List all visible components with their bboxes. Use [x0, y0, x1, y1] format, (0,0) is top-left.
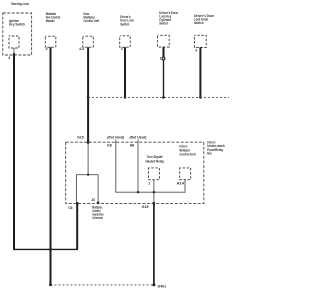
driver's door lock knob switch terminal square: [194, 35, 206, 47]
wire relay pinA14 down to bus: [184, 180, 186, 193]
svg-text:Hazard Relay: Hazard Relay: [146, 159, 165, 164]
terminal tick G15 entry: [87, 141, 89, 144]
radiator fan control module terminal square: [45, 36, 56, 47]
svg-text:Box: Box: [207, 151, 212, 156]
junction dot bottom bus: [49, 248, 52, 251]
svg-text:(Not Used): (Not Used): [107, 135, 125, 139]
wire knob switch down to door boundary: [199, 47, 201, 97]
svg-text:C6: C6: [68, 206, 72, 210]
svg-text:4: 4: [46, 47, 48, 51]
label Multiplex Control Inspection Connector: [92, 205, 104, 221]
svg-text:G15: G15: [77, 135, 84, 139]
terminal tick G15 exit: [153, 202, 155, 205]
wire ignition pin3 down: [13, 48, 15, 54]
svg-text:Module: Module: [46, 18, 56, 23]
svg-text:1: 1: [160, 57, 162, 61]
turn signal hazard relay pin A14 square: [180, 168, 191, 180]
terminal dot on door boundary: [162, 96, 165, 99]
svg-text:K8: K8: [107, 143, 111, 147]
svg-text:3: 3: [195, 49, 197, 53]
svg-text:G15: G15: [142, 205, 149, 209]
ground end dot left: [49, 283, 52, 286]
ground dashed link: [51, 284, 154, 286]
driver's under-dash fuse/relay box dashed enclosure: [66, 142, 204, 203]
label Ignition Key Switch: [9, 18, 25, 27]
svg-text:Steering Lock: Steering Lock: [11, 1, 30, 6]
svg-text:J3: J3: [91, 198, 95, 202]
wire relay pin1 down through G15 exit: [153, 180, 155, 204]
driver's door lock switch terminal square: [120, 36, 131, 47]
wire A12 down to G15: [87, 47, 89, 142]
svg-text:G401: G401: [158, 284, 167, 288]
ground bus horizontal right: [51, 248, 79, 250]
turn signal hazard relay pin 1 square: [148, 168, 159, 180]
svg-text:A12: A12: [79, 47, 84, 51]
label Driver's Door Lock Switch: [120, 14, 134, 27]
svg-text:2: 2: [121, 47, 123, 51]
branch horizontal to C6 and J3: [76, 174, 98, 176]
svg-text:3: 3: [8, 56, 10, 60]
terminal dot on door boundary: [124, 96, 127, 99]
svg-text:Control Unit: Control Unit: [84, 18, 100, 23]
terminal dot J3: [97, 202, 100, 205]
label Driver's Door Lock Knob Switch: [194, 13, 214, 25]
svg-text:Key Switch: Key Switch: [9, 21, 25, 26]
wire G15 down to G401: [153, 203, 155, 285]
junction dot pin1 bus: [153, 191, 155, 193]
wire key cylinder down to door boundary: [163, 47, 165, 59]
label Driver's Multiplex Control Unit: [179, 144, 196, 157]
label Driver's Door Lock Key Cylinder Switch: [159, 10, 178, 26]
junction dot H8 on bus: [137, 191, 139, 193]
svg-text:(Not Used): (Not Used): [130, 135, 148, 139]
svg-text:H8: H8: [130, 143, 134, 147]
wire C6 down to ground bus: [76, 203, 78, 249]
svg-text:1: 1: [148, 181, 150, 185]
terminal tick ignition box exit: [13, 53, 15, 56]
K8 stub wire down to bus: [116, 140, 185, 193]
ground bus horizontal left: [13, 248, 50, 250]
svg-text:A14: A14: [177, 181, 184, 185]
branch wire down to C6: [75, 175, 77, 204]
svg-text:Switch: Switch: [120, 21, 129, 26]
inline connector dot pin 1: [162, 57, 165, 60]
terminal dot on door boundary: [199, 96, 202, 99]
H8 stub wire down: [137, 140, 139, 193]
svg-text:Connector: Connector: [92, 215, 103, 220]
svg-text:Control Unit: Control Unit: [179, 152, 196, 157]
door multiplex control unit terminal square: [83, 36, 94, 47]
label Turn Signal / Hazard Relay: [146, 154, 165, 164]
junction dot at door boundary: [87, 96, 90, 99]
wire radiator pin4 down to ground junction: [50, 47, 52, 285]
svg-text:Switch: Switch: [159, 21, 168, 26]
junction dot G15 branch: [87, 174, 89, 176]
ignition key switch terminal square: [9, 36, 19, 48]
wire G15 internal down: [87, 142, 89, 175]
steering lock dashed enclosure: [3, 13, 32, 55]
ground G401 dot: [152, 283, 155, 286]
svg-text:Switch: Switch: [194, 20, 204, 25]
label Driver's Under-dash Fuse/Relay Box: [207, 139, 225, 155]
branch wire down to J3: [97, 175, 99, 203]
wire lock switch down to door boundary: [124, 47, 126, 97]
terminal tick C6 exit: [76, 202, 78, 205]
label Door Multiplex Control Unit: [84, 11, 100, 23]
label Radiator Fan Control Module: [46, 11, 61, 23]
driver's door lock key cylinder switch terminal square: [157, 35, 169, 47]
door boundary dashed line: [88, 96, 229, 98]
